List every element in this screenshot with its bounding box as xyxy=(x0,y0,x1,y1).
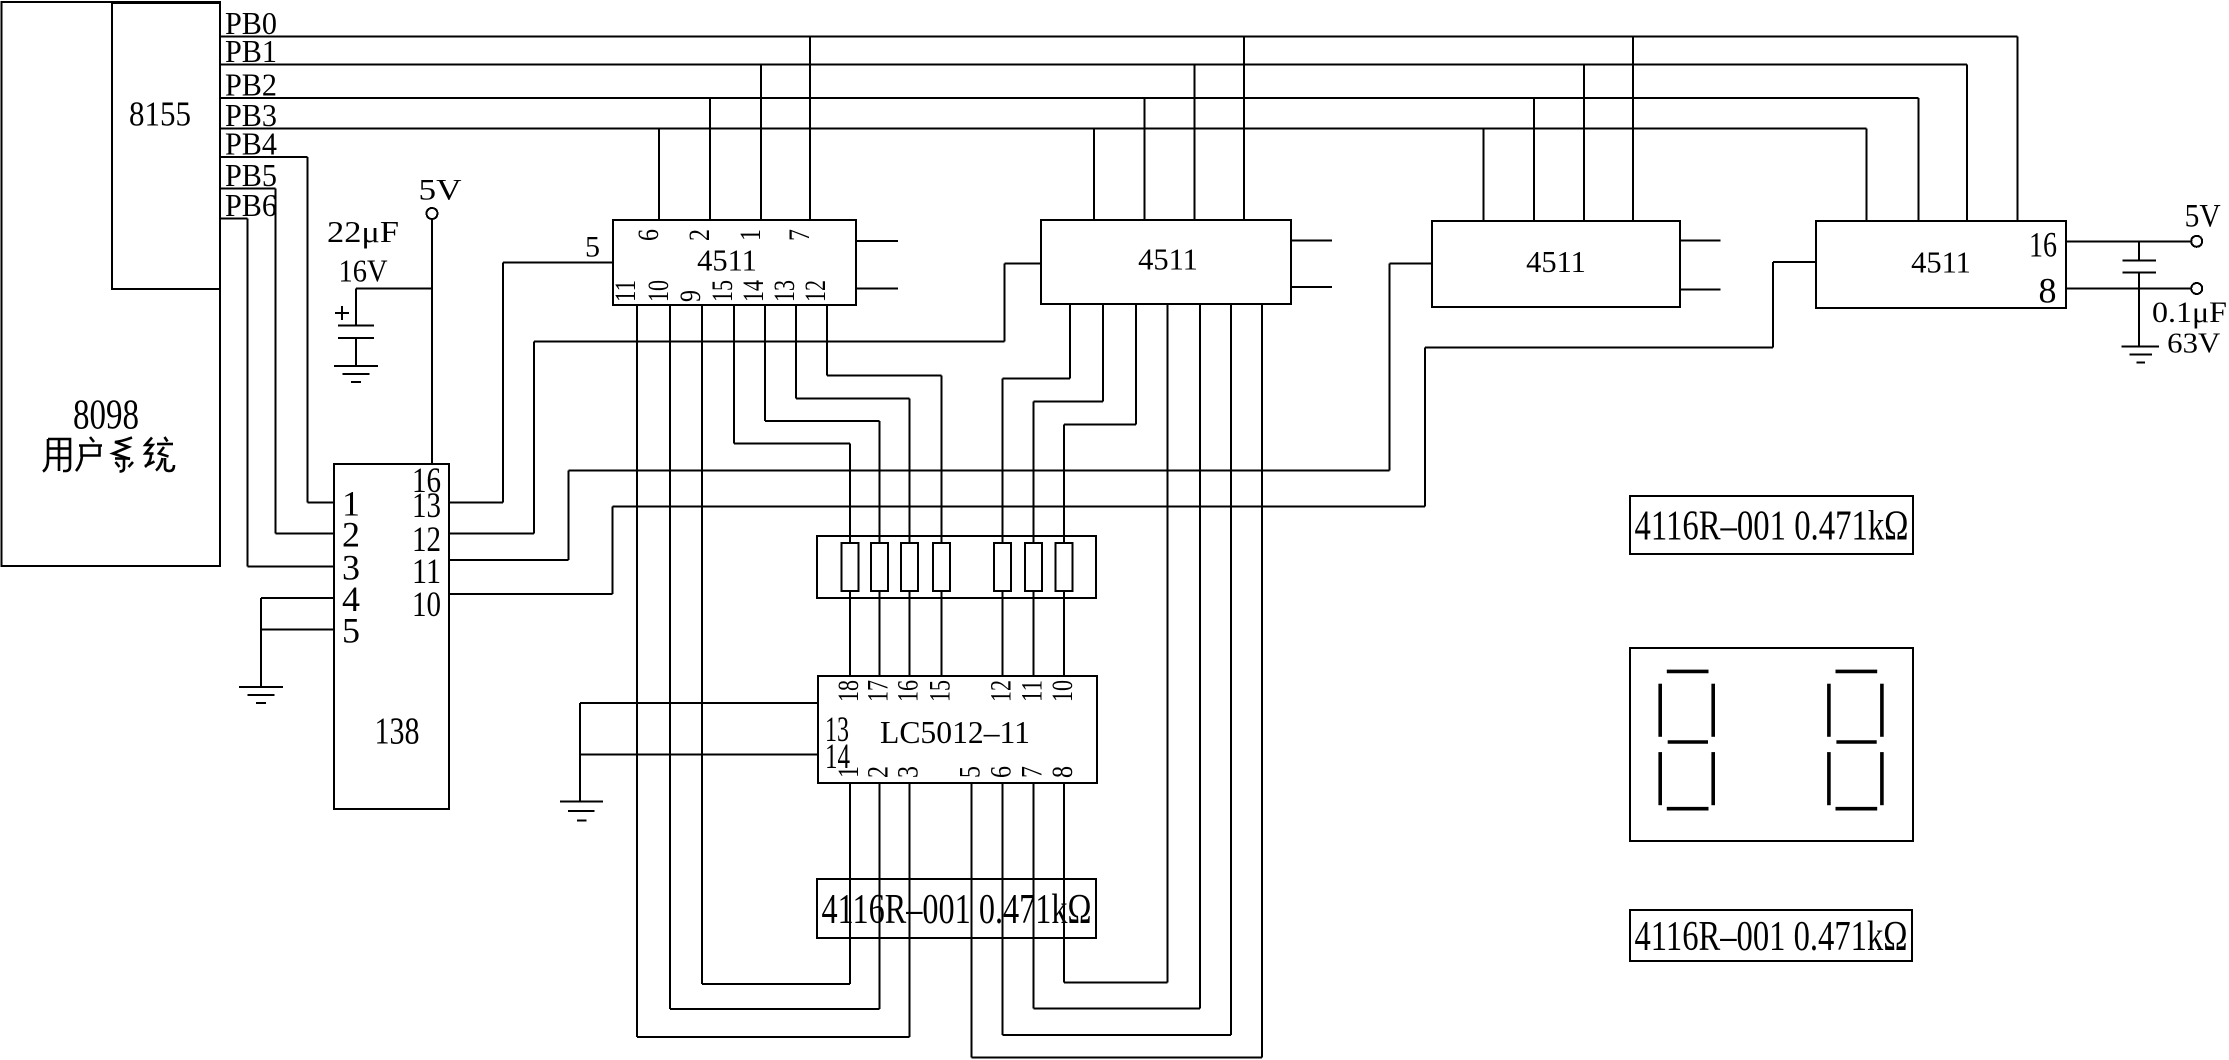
wire PB0 to U3 top pin xyxy=(1632,37,1634,222)
pin 2 label (U1 top) xyxy=(683,229,716,241)
wire U2 output x1200 to LC5012 bottom pin xyxy=(1034,304,1201,1009)
svg-text:4511: 4511 xyxy=(697,244,757,278)
net PB6 wire xyxy=(221,187,334,566)
svg-text:5: 5 xyxy=(342,611,360,651)
power 5V terminal (right) xyxy=(2185,199,2221,247)
pin 12 label (138 right) xyxy=(412,519,441,559)
pin 5 label (DS1 bottom) xyxy=(954,766,987,778)
svg-text:6: 6 xyxy=(985,766,1018,778)
capacitor C1 22uF 16V electrolytic xyxy=(327,214,399,366)
svg-text:4116R–001 0.471kΩ: 4116R–001 0.471kΩ xyxy=(1635,504,1909,550)
svg-text:2: 2 xyxy=(862,766,895,778)
pin 12 label (DS1 top) xyxy=(985,680,1018,702)
svg-text:4511: 4511 xyxy=(1526,245,1586,279)
pin 7 label (DS1 bottom) xyxy=(1016,766,1049,778)
resistor network label box 4116R-001 #2 xyxy=(1630,496,1913,554)
pin 8 label (DS1 bottom) xyxy=(1046,766,1079,778)
wire PB3 to U2 top pin xyxy=(1093,129,1095,221)
wire PB1 to U4 top pin xyxy=(1966,65,1968,222)
wire 138 pin5 input xyxy=(261,598,334,687)
resistor RN1 element 7 xyxy=(1056,543,1073,591)
pin 13 label (138 right) xyxy=(412,485,441,525)
resistor RN1 element 4 xyxy=(933,543,950,591)
resistor network label box 4116R-001 #1 xyxy=(817,879,1096,938)
pin 10 label (138 right) xyxy=(412,584,441,624)
svg-text:6: 6 xyxy=(632,229,665,241)
wire U4 pin16 to 5V xyxy=(2066,240,2191,242)
wire U2 output x1167.5 to LC5012 bottom pin xyxy=(1064,304,1168,983)
svg-text:5: 5 xyxy=(585,231,600,264)
svg-text:1: 1 xyxy=(734,229,767,241)
pin 14 label (DS1 left) xyxy=(825,736,850,776)
pin 11 label (138 right) xyxy=(412,551,441,591)
svg-text:9: 9 xyxy=(674,290,707,302)
pin 5 label (138 left) xyxy=(342,611,360,651)
power 5V terminal (top middle) xyxy=(419,174,462,220)
wire resistor 5 to LC5012 top pin xyxy=(1002,591,1004,676)
pin stub U3 pin16 xyxy=(1680,240,1721,242)
wire PB1 to U1 top pin xyxy=(760,65,762,222)
wire 138 pin11 to 4511#3 pin5 xyxy=(449,263,1432,560)
wire resistor 3 to LC5012 top pin xyxy=(909,591,911,676)
pin 13 label (DS1 left) xyxy=(825,709,849,749)
label LC5012-11 xyxy=(880,714,1030,750)
pin 3 label (DS1 bottom) xyxy=(892,766,925,778)
wire 5V to 138 pin16 xyxy=(431,219,433,464)
svg-text:11: 11 xyxy=(1016,680,1049,702)
wire U1 segment output x796 to resistor xyxy=(796,305,910,543)
label 4511 (U3) xyxy=(1526,245,1586,279)
wire PB2 to U4 top pin xyxy=(1918,98,1920,221)
IC U3 CD4511 box xyxy=(1432,221,1680,307)
net PB1 wire xyxy=(221,33,1967,221)
wire 138 pin10 to 4511#4 pin5 xyxy=(449,262,1816,594)
wire U1 output x637 to LC5012 bottom pin xyxy=(637,305,910,1037)
wire U2 segment output x1103 to resistor xyxy=(1034,304,1104,543)
7-segment digit 1 xyxy=(1660,671,1713,808)
IC U2 CD4511 box xyxy=(1041,220,1291,304)
svg-text:7: 7 xyxy=(783,229,816,241)
wire PB0 to U4 top pin xyxy=(2017,37,2019,222)
svg-text:10: 10 xyxy=(642,280,675,302)
pin 9 label (U1 bottom) xyxy=(674,290,707,302)
svg-text:14: 14 xyxy=(737,280,770,302)
svg-text:4116R–001 0.471kΩ: 4116R–001 0.471kΩ xyxy=(822,887,1092,933)
wire U2 segment output x1070 to resistor xyxy=(1003,304,1071,543)
svg-text:LC5012–11: LC5012–11 xyxy=(880,714,1030,750)
svg-text:8098: 8098 xyxy=(73,393,139,439)
wire resistor 2 to LC5012 top pin xyxy=(879,591,881,676)
resistor RN1 element 5 xyxy=(994,543,1011,591)
svg-text:16V: 16V xyxy=(339,253,388,289)
pin 18 label (DS1 top) xyxy=(832,680,865,702)
pin 6 label (U1 top) xyxy=(632,229,665,241)
pin 16 label (U4) xyxy=(2029,225,2057,265)
wire U1 segment output x765 to resistor xyxy=(765,305,880,543)
IC U4 CD4511 box xyxy=(1816,221,2066,308)
pin 11 label (DS1 top) xyxy=(1016,680,1049,702)
ground (below C2) xyxy=(2121,347,2159,363)
wire resistor 7 to LC5012 top pin xyxy=(1063,591,1065,676)
pin 16 label (138 right) xyxy=(412,460,441,500)
resistor RN1 element 6 xyxy=(1025,543,1042,591)
wire U2 segment output x1136 to resistor xyxy=(1064,304,1136,543)
label 4511 (U4) xyxy=(1911,245,1971,279)
wire PB2 to U2 top pin xyxy=(1144,98,1146,221)
resistor RN1 element 1 xyxy=(842,543,859,591)
resistor RN1 element 3 xyxy=(901,543,918,591)
wire resistor 4 to LC5012 top pin xyxy=(941,591,943,676)
pin 1 label (DS1 bottom) xyxy=(832,766,865,778)
wire PB0 to U1 top pin xyxy=(809,37,811,222)
pin stub U3 pin8 xyxy=(1680,289,1721,291)
pin stub U2 pin8 xyxy=(1291,286,1332,288)
pin 13 label (U1 bottom) xyxy=(768,280,801,302)
ground (DS1 pins 13,14) xyxy=(560,801,603,820)
svg-text:16: 16 xyxy=(2029,225,2057,265)
net PB0 wire xyxy=(221,5,2018,221)
svg-text:8155: 8155 xyxy=(129,95,191,134)
label 8098 xyxy=(73,393,139,439)
pin stub U2 pin16 xyxy=(1291,240,1332,242)
svg-text:63V: 63V xyxy=(2167,328,2220,360)
wire PB0 to U2 top pin xyxy=(1243,37,1245,222)
svg-text:2: 2 xyxy=(683,229,716,241)
svg-text:10: 10 xyxy=(412,584,441,624)
label 8155 xyxy=(129,95,191,134)
wire PB2 to U1 top pin xyxy=(709,98,711,221)
pin 3 label (138 left) xyxy=(342,547,360,587)
resistor RN1 element 2 xyxy=(871,543,888,591)
svg-text:3: 3 xyxy=(892,766,925,778)
wire U2 output x1231 to LC5012 bottom pin xyxy=(1003,304,1232,1035)
svg-text:12: 12 xyxy=(985,680,1018,702)
pin 7 label (U1 top) xyxy=(783,229,816,241)
wire U1 segment output x734 to resistor xyxy=(734,305,850,543)
IC 8098 user system box xyxy=(2,2,221,566)
IC 8155 box xyxy=(112,3,220,289)
wire PB3 to U1 top pin xyxy=(658,129,660,221)
pin 15 label (U1 bottom) xyxy=(706,280,739,302)
wire PB2 to U3 top pin xyxy=(1533,98,1535,221)
pin 5 label (U1 LE) xyxy=(585,231,600,264)
svg-text:5V: 5V xyxy=(419,174,462,207)
svg-text:5V: 5V xyxy=(2185,199,2221,235)
resistor network label box 4116R-001 #3 xyxy=(1630,910,1912,961)
pin 10 label (DS1 top) xyxy=(1046,680,1079,702)
svg-text:10: 10 xyxy=(1046,680,1079,702)
svg-text:12: 12 xyxy=(799,280,832,302)
wire DS1 pin13 xyxy=(580,702,818,704)
svg-text:7: 7 xyxy=(1016,766,1049,778)
pin 14 label (U1 bottom) xyxy=(737,280,770,302)
svg-text:5: 5 xyxy=(954,766,987,778)
wire U1 output x670 to LC5012 bottom pin xyxy=(670,305,880,1009)
pin 16 label (DS1 top) xyxy=(892,680,925,702)
pin 6 label (DS1 bottom) xyxy=(985,766,1018,778)
label 用户系统 (user system) xyxy=(43,437,174,472)
display module box (two 7-segment digits) xyxy=(1630,648,1913,841)
net PB5 wire xyxy=(221,157,334,534)
resistor network RN1 outline xyxy=(817,536,1096,598)
svg-text:0.1μF: 0.1μF xyxy=(2152,296,2227,329)
pin 8 label (U4) xyxy=(2039,271,2057,311)
svg-text:17: 17 xyxy=(862,680,895,702)
wire U1 output x702 to LC5012 bottom pin xyxy=(702,305,850,984)
svg-text:PB6: PB6 xyxy=(225,187,277,223)
wire PB3 to U3 top pin xyxy=(1483,129,1485,221)
pin 12 label (U1 bottom) xyxy=(799,280,832,302)
svg-text:15: 15 xyxy=(706,280,739,302)
net PB2 wire xyxy=(221,66,1919,221)
terminal (right lower) xyxy=(2191,283,2202,294)
label 138 xyxy=(375,711,420,753)
label 4511 (U2) xyxy=(1138,243,1198,277)
svg-text:11: 11 xyxy=(609,280,642,302)
svg-text:14: 14 xyxy=(825,736,850,776)
label 4511 (U1) xyxy=(697,244,757,278)
svg-text:4116R–001 0.471kΩ: 4116R–001 0.471kΩ xyxy=(1635,914,1908,960)
wire U4 pin8 to terminal xyxy=(2066,288,2191,290)
wire resistor 1 to LC5012 top pin xyxy=(849,591,851,676)
wire PB1 to U2 top pin xyxy=(1194,65,1196,222)
svg-text:15: 15 xyxy=(924,680,957,702)
ground (138 pins 4,5) xyxy=(239,687,283,703)
pin 10 label (U1 bottom) xyxy=(642,280,675,302)
7-segment digit 2 xyxy=(1829,671,1882,808)
svg-text:13: 13 xyxy=(768,280,801,302)
pin stub U1 pin8 xyxy=(856,287,898,289)
svg-text:PB1: PB1 xyxy=(225,33,277,69)
pin 15 label (DS1 top) xyxy=(924,680,957,702)
net PB4 wire xyxy=(221,126,334,503)
pin 2 label (138 left) xyxy=(342,515,360,555)
wire PB3 to U4 top pin xyxy=(1866,129,1868,221)
wire 138 pin4 input xyxy=(261,597,334,599)
pin 17 label (DS1 top) xyxy=(862,680,895,702)
pin 11 label (U1 bottom) xyxy=(609,280,642,302)
wire resistor 6 to LC5012 top pin xyxy=(1033,591,1035,676)
wire 138 pin13 to 4511#1 pin5 xyxy=(449,263,613,503)
svg-text:18: 18 xyxy=(832,680,865,702)
svg-text:8: 8 xyxy=(2039,271,2057,311)
capacitor C2 0.1uF 63V xyxy=(2122,241,2227,359)
wire 138 pin12 to 4511#2 pin5 xyxy=(449,264,1041,534)
wire U2 output x1262 to LC5012 bottom pin xyxy=(972,304,1263,1058)
svg-text:138: 138 xyxy=(375,711,420,753)
wire 16V node to 5V rail xyxy=(356,288,432,290)
svg-text:16: 16 xyxy=(892,680,925,702)
svg-text:22μF: 22μF xyxy=(327,214,399,249)
pin 2 label (DS1 bottom) xyxy=(862,766,895,778)
svg-text:8: 8 xyxy=(1046,766,1079,778)
IC U1 CD4511 box xyxy=(613,220,856,305)
pin 1 label (U1 top) xyxy=(734,229,767,241)
svg-text:4511: 4511 xyxy=(1911,245,1971,279)
IC U5 74LS138 decoder box xyxy=(334,464,449,809)
ground (below C1) xyxy=(334,366,378,382)
pin 1 label (138 left) xyxy=(342,484,360,524)
wire PB1 to U3 top pin xyxy=(1583,65,1585,222)
pin 4 label (138 left) xyxy=(342,579,360,619)
svg-text:4511: 4511 xyxy=(1138,243,1198,277)
IC DS1 LC5012-11 box xyxy=(818,676,1097,783)
net PB3 wire xyxy=(221,97,1867,221)
wire U1 segment output x827 to resistor xyxy=(827,305,942,543)
wire DS1 pin14 xyxy=(580,703,818,801)
pin stub U1 pin16 xyxy=(856,240,898,242)
